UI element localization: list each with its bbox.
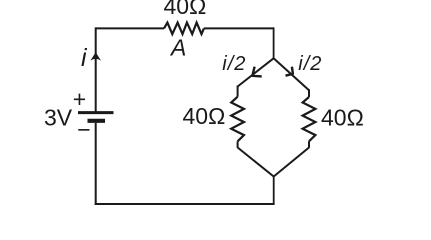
wire left vertical lower	[95, 123, 97, 205]
svg-text:3V: 3V	[44, 105, 73, 131]
arrow i/2 right	[286, 67, 293, 76]
svg-text:40Ω: 40Ω	[164, 0, 207, 19]
wire right branch bottom lead	[308, 141, 310, 148]
wire left branch bottom lead	[237, 141, 239, 148]
svg-text:40Ω: 40Ω	[321, 105, 364, 131]
svg-text:A: A	[169, 35, 186, 61]
wire top left segment	[96, 27, 164, 29]
wire diagonal bottom-left branch	[238, 148, 274, 177]
resistor left 40 ohm	[231, 97, 244, 142]
battery B1 positive plate	[78, 111, 114, 114]
wire bottom	[95, 203, 274, 205]
wire left vertical upper	[95, 27, 97, 111]
svg-text:i/2: i/2	[222, 53, 246, 75]
wire diagonal bottom-right branch	[274, 148, 309, 177]
wire right vertical to node	[273, 27, 275, 58]
resistor A (40 ohm, top)	[164, 23, 204, 34]
svg-text:−: −	[77, 117, 90, 143]
wire right branch top lead	[308, 89, 310, 97]
current arrow i	[90, 52, 101, 60]
wire left branch top lead	[237, 86, 239, 97]
wire diagonal top-right branch	[274, 58, 309, 90]
svg-text:40Ω: 40Ω	[183, 103, 226, 129]
battery B1 negative plate	[88, 119, 106, 123]
arrow i/2 left	[252, 67, 261, 77]
wire diagonal top-left branch	[238, 58, 274, 86]
wire top right segment	[204, 27, 274, 29]
wire bottom node to bottom	[273, 177, 275, 206]
resistor right 40 ohm	[303, 97, 316, 141]
svg-text:+: +	[73, 86, 86, 112]
svg-text:i: i	[81, 44, 88, 72]
svg-text:i/2: i/2	[298, 53, 322, 75]
